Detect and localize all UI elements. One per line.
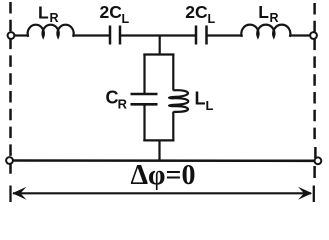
svg-text:L: L xyxy=(38,3,49,23)
svg-text:R: R xyxy=(50,11,59,25)
left branch wire lower xyxy=(143,105,145,141)
right arrow terminal bar xyxy=(313,186,315,203)
wire: LR to 2CL xyxy=(73,34,109,36)
right dashed boundary line xyxy=(313,3,316,145)
resonator box top wire xyxy=(143,53,174,55)
capacitor 2CL (left) plates xyxy=(110,26,120,45)
svg-text:L: L xyxy=(195,88,206,108)
capacitor 2CL (right) plates xyxy=(196,26,207,45)
port circle top-left xyxy=(8,32,15,39)
svg-text:L: L xyxy=(206,98,214,113)
svg-text:R: R xyxy=(118,97,128,112)
svg-text:2C: 2C xyxy=(100,2,123,22)
label LR (right) xyxy=(258,2,278,25)
capacitor CR plates xyxy=(131,94,158,104)
right arrowhead xyxy=(298,187,312,200)
left branch wire upper xyxy=(143,55,145,94)
svg-text:Δφ=0: Δφ=0 xyxy=(131,160,196,191)
wire: 2CL to LR (right) xyxy=(208,34,243,36)
label 2CL (left) xyxy=(100,2,130,26)
inductor LR (left) xyxy=(28,25,74,37)
wire: top rail left segment xyxy=(13,34,29,36)
port circle top-right xyxy=(310,32,317,39)
wire: lead above bottom-right port xyxy=(314,147,317,158)
svg-text:L: L xyxy=(122,12,130,26)
svg-text:L: L xyxy=(208,12,216,26)
node stem from top rail xyxy=(159,36,161,55)
inductor LR (right) xyxy=(241,25,290,37)
label LR (left) xyxy=(38,3,59,26)
svg-text:C: C xyxy=(106,88,119,108)
right branch wire upper xyxy=(172,55,174,91)
resonator box bottom wire xyxy=(143,139,174,141)
left arrow terminal bar xyxy=(9,186,11,203)
left arrowhead xyxy=(12,187,26,200)
svg-text:R: R xyxy=(270,11,279,25)
right branch wire lower xyxy=(172,112,174,142)
wire: lead below bottom-right port xyxy=(313,166,316,178)
inductor LL coil xyxy=(169,90,188,112)
wire: LR to right port xyxy=(290,34,311,36)
stem to bottom rail xyxy=(158,140,160,160)
label 2CL (right) xyxy=(185,2,215,26)
svg-text:2C: 2C xyxy=(185,2,208,22)
port circle bottom-left xyxy=(6,157,13,164)
bottom rail wire xyxy=(10,159,317,162)
wire: 2CL to 2CL through node xyxy=(121,34,195,36)
dimension arrow line xyxy=(13,192,311,194)
label LL xyxy=(195,88,214,113)
port circle bottom-right xyxy=(315,157,322,164)
left dashed boundary line xyxy=(9,2,12,180)
label CR xyxy=(106,88,128,112)
svg-text:L: L xyxy=(258,2,269,22)
